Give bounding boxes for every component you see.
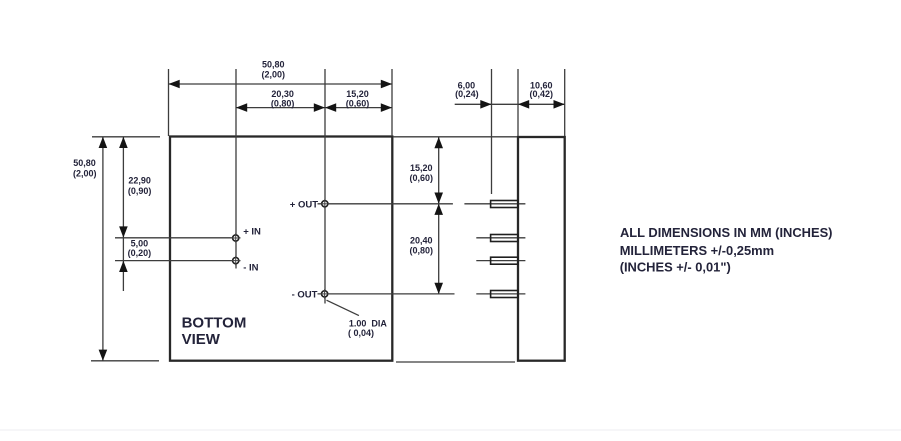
svg-text:(0,90): (0,90) xyxy=(128,186,152,196)
extension line top-right (x=392) xyxy=(391,69,393,136)
svg-text:(0,42): (0,42) xyxy=(530,89,554,99)
wire pin3 leader xyxy=(476,260,525,262)
arrow right 15,20 xyxy=(381,103,392,112)
arrow up 22,90 xyxy=(119,137,128,148)
arrow bowtie right 20,30 xyxy=(314,103,325,112)
leader 1.00 DIA xyxy=(327,300,359,315)
wire top edge link between views xyxy=(393,136,517,138)
wire -OUT leader xyxy=(318,293,455,295)
dimension 22,90 vertical line xyxy=(122,137,124,238)
arrow left 10,60 xyxy=(518,100,529,109)
package body outline (bottom view) xyxy=(170,137,392,361)
svg-text:- OUT: - OUT xyxy=(292,289,318,300)
arrow left 20,30 xyxy=(236,103,247,112)
side view pin 3 xyxy=(491,257,518,264)
pin -OUT circle xyxy=(322,291,328,297)
extension line body top level left (y=136.8) xyxy=(92,136,160,138)
svg-text:(0,24): (0,24) xyxy=(455,89,479,99)
side view body outline xyxy=(518,137,565,361)
arrow down 15,20 xyxy=(434,193,443,204)
dimension 50,80 horizontal line xyxy=(169,83,393,85)
dimension 10,60 line xyxy=(518,103,565,105)
wire +OUT leader resumed xyxy=(464,203,525,205)
extension line side view left (x=518) xyxy=(517,69,519,136)
extension line pin tips (x=491.5) xyxy=(491,69,493,194)
dimension 50,80 vertical line xyxy=(102,137,104,361)
extension line IN column (x=236) xyxy=(235,69,237,269)
arrow up 50,80 vertical xyxy=(99,137,108,148)
pin -IN circle xyxy=(233,258,239,264)
svg-text:+ OUT: + OUT xyxy=(290,199,318,210)
svg-text:(0,80): (0,80) xyxy=(410,245,434,255)
side view pin 1 xyxy=(491,201,518,208)
dimension 5,00 lower arrow and tail xyxy=(122,238,124,291)
svg-text:20,40: 20,40 xyxy=(410,235,433,245)
arrow down 20,40 xyxy=(434,283,443,294)
extension line side view right (x=564.7) xyxy=(564,69,566,136)
dimension 15,20 vertical line right xyxy=(438,137,440,204)
arrow right 50,80 xyxy=(381,80,392,89)
svg-text:VIEW: VIEW xyxy=(182,331,221,348)
svg-text:1.00 DIA: 1.00 DIA xyxy=(349,318,388,328)
svg-text:+ IN: + IN xyxy=(243,226,261,237)
arrow up 20,40 xyxy=(434,204,443,215)
side view pin 2 xyxy=(491,235,518,242)
svg-text:MILLIMETERS +/-0,25mm: MILLIMETERS +/-0,25mm xyxy=(620,243,774,258)
arrow 6,00 xyxy=(480,100,491,109)
svg-text:(0,20): (0,20) xyxy=(128,248,152,258)
svg-text:(0,80): (0,80) xyxy=(271,98,295,108)
arrow down 50,80 vertical xyxy=(99,350,108,361)
arrow bowtie left 15,20 xyxy=(325,103,336,112)
svg-text:(INCHES +/- 0,01"): (INCHES +/- 0,01") xyxy=(620,259,731,274)
arrow left 50,80 xyxy=(169,80,180,89)
arrow up 15,20 xyxy=(434,137,443,148)
svg-text:15,20: 15,20 xyxy=(410,163,433,173)
pin +IN circle xyxy=(233,235,239,241)
wire pin2 leader xyxy=(476,237,525,239)
svg-text:ALL DIMENSIONS IN MM (INCHES): ALL DIMENSIONS IN MM (INCHES) xyxy=(620,225,832,240)
dimension 6,00 leader line xyxy=(455,103,518,105)
arrow right 10,60 xyxy=(554,100,565,109)
faint page rule xyxy=(0,429,901,431)
pin +OUT circle xyxy=(322,201,328,207)
svg-text:(2,00): (2,00) xyxy=(262,69,286,79)
extension line top-left (x=168.5) xyxy=(168,69,170,136)
extension line OUT column (x=325) xyxy=(324,69,326,304)
dimension 20,40 vertical line xyxy=(438,204,440,294)
wire -OUT leader resumed xyxy=(476,293,525,295)
svg-text:(0,60): (0,60) xyxy=(410,173,434,183)
svg-text:( 0,04): ( 0,04) xyxy=(348,328,374,338)
arrow down 22,90 xyxy=(119,226,128,237)
svg-text:- IN: - IN xyxy=(243,263,258,274)
extension line body bottom level left (y=360.8) xyxy=(91,360,159,362)
wire +OUT leader xyxy=(318,203,453,205)
extension line +IN row xyxy=(115,237,240,239)
svg-text:BOTTOM: BOTTOM xyxy=(182,315,247,332)
side view pin 4 xyxy=(491,291,518,298)
dimension 20,30 / 15,20 horizontal line xyxy=(236,107,392,109)
extension line -IN row xyxy=(115,260,240,262)
wire bottom edge link between views xyxy=(396,361,515,363)
svg-text:50,80: 50,80 xyxy=(73,158,96,168)
svg-text:22,90: 22,90 xyxy=(128,176,151,186)
svg-text:50,80: 50,80 xyxy=(262,59,285,69)
svg-text:(0,60): (0,60) xyxy=(346,98,370,108)
svg-text:(2,00): (2,00) xyxy=(73,168,97,178)
